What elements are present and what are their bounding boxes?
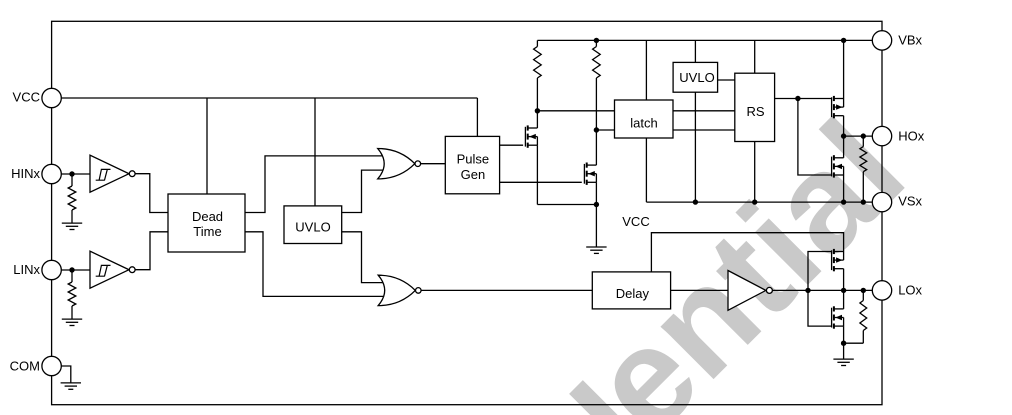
svg-text:VBx: VBx <box>898 32 922 47</box>
svg-text:VSx: VSx <box>898 194 922 209</box>
svg-text:RS: RS <box>746 104 764 119</box>
svg-text:Time: Time <box>193 224 221 239</box>
svg-text:UVLO: UVLO <box>295 220 330 235</box>
svg-text:latch: latch <box>630 115 657 130</box>
svg-text:LINx: LINx <box>13 262 40 277</box>
svg-text:HINx: HINx <box>11 166 40 181</box>
svg-text:UVLO: UVLO <box>679 70 714 85</box>
svg-text:Delay: Delay <box>616 286 650 301</box>
svg-text:Dead: Dead <box>192 209 223 224</box>
svg-text:Gen: Gen <box>461 167 486 182</box>
svg-text:Pulse: Pulse <box>457 152 490 167</box>
svg-text:VCC: VCC <box>13 90 40 105</box>
svg-text:COM: COM <box>10 359 40 374</box>
svg-text:VCC: VCC <box>622 214 649 229</box>
svg-text:LOx: LOx <box>898 282 922 297</box>
svg-text:HOx: HOx <box>898 128 925 143</box>
